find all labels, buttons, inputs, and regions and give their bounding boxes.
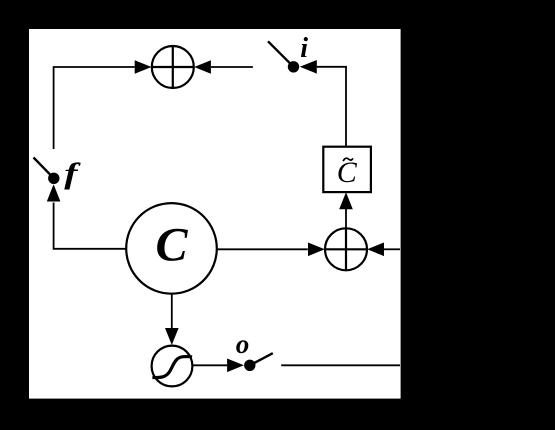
arrow into top adder right xyxy=(194,60,211,74)
label f xyxy=(64,157,81,190)
sigmoid unit xyxy=(152,346,193,387)
svg-text:i: i xyxy=(300,33,308,64)
box Ctilde xyxy=(323,147,371,192)
switch arm f xyxy=(34,158,54,179)
svg-text:o: o xyxy=(236,329,250,359)
arrow into mid adder right xyxy=(367,243,384,257)
switch arm o xyxy=(250,353,273,365)
wire f switch up to top adder xyxy=(54,67,135,149)
node f dot xyxy=(48,173,59,184)
arrow into i dot xyxy=(300,60,317,74)
svg-text:C: C xyxy=(155,218,188,271)
adder (top) xyxy=(152,46,194,88)
arrow into mid adder left xyxy=(308,243,325,257)
wire C down to sigmoid xyxy=(171,294,173,329)
arrow into f dot xyxy=(47,184,61,201)
arrow into sigmoid top xyxy=(165,328,179,345)
arrow into Ctilde box bottom xyxy=(339,192,353,209)
wire right edge to mid adder xyxy=(384,248,400,250)
node o dot xyxy=(244,360,255,371)
wire mid adder up to Ctilde xyxy=(345,209,347,229)
wire C left to f gate (elbow) xyxy=(54,203,127,249)
cell C circle xyxy=(126,203,217,294)
node i dot xyxy=(288,61,299,72)
wire i switch to top adder xyxy=(211,66,253,68)
label o xyxy=(236,329,250,359)
wire sigmoid to o switch xyxy=(193,364,227,366)
switch arm i xyxy=(268,41,294,67)
wire Ctilde box up to i switch xyxy=(317,67,346,147)
label i xyxy=(300,33,308,64)
arrow into o dot xyxy=(227,359,244,373)
wire o switch to right edge xyxy=(281,364,400,366)
arrow into top adder left xyxy=(135,60,152,74)
adder (middle) xyxy=(325,228,367,270)
svg-text:C: C xyxy=(337,156,358,189)
label Ctilde xyxy=(337,156,358,189)
wire C to mid adder xyxy=(217,248,308,250)
